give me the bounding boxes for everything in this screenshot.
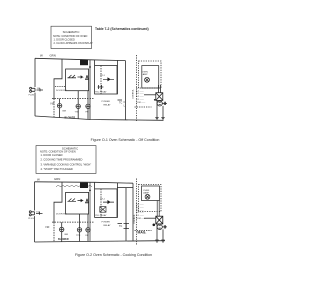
connector block dark <box>80 60 88 65</box>
HV wire down right S2 <box>162 229 164 240</box>
fuse F1 <box>37 89 44 92</box>
svg-text:FM: FM <box>86 235 89 237</box>
svg-text:CONTROL: CONTROL <box>133 88 135 99</box>
touch control panel dashed box S2 <box>139 185 162 212</box>
HV wire down right S1 <box>162 106 164 118</box>
interlock switch contacts S1 <box>68 75 77 78</box>
HV capacitor C1 S2 <box>162 225 167 228</box>
interlock switch arrow S1 <box>78 76 83 78</box>
touch control panel dashed box S1 <box>139 61 162 88</box>
svg-text:PLUG: PLUG <box>29 94 35 96</box>
svg-text:RY-1 RELAY: RY-1 RELAY <box>95 91 107 94</box>
wire step down from top bus S1 <box>54 59 62 99</box>
wire left side S2 <box>34 182 36 242</box>
note box 2 border <box>36 146 96 174</box>
fan motor FM S1 <box>86 91 90 120</box>
wire bottom bus S1 <box>35 116 164 120</box>
svg-text:LAMP: LAMP <box>142 73 148 76</box>
HV wire down left S2 <box>156 224 158 240</box>
svg-text:NOTE: CONDITION OF OVEN: NOTE: CONDITION OF OVEN <box>53 35 88 38</box>
control unit inner box S1 <box>142 66 159 88</box>
wire x54 to bottom S2 <box>53 222 55 241</box>
svg-text:TTM: TTM <box>76 235 81 237</box>
junction dot S2 <box>153 224 156 227</box>
relay box divider S2 <box>100 189 102 218</box>
capacitor marks S2 <box>124 223 130 228</box>
svg-text:A-1 ——: A-1 —— <box>136 203 144 206</box>
svg-text:NF: NF <box>46 225 50 229</box>
svg-text:DOOR SW.: DOOR SW. <box>56 214 68 216</box>
blower motor BM S2 <box>60 222 64 242</box>
svg-text:NOTE: CONDITION OF OVEN: NOTE: CONDITION OF OVEN <box>40 150 76 154</box>
svg-text:GRN: GRN <box>50 54 56 58</box>
svg-text:MAG.: MAG. <box>138 231 147 235</box>
svg-text:C-1 ——: C-1 —— <box>136 99 144 101</box>
control unit inner box S2 <box>142 186 160 201</box>
svg-text:1. DOOR CLOSED: 1. DOOR CLOSED <box>54 39 75 42</box>
wire top bus S1 <box>35 58 126 60</box>
svg-text:A-1 ——: A-1 —— <box>136 86 144 89</box>
triac box S2 <box>100 207 106 213</box>
interlock switch box S2 <box>66 192 89 214</box>
svg-text:OVEN: OVEN <box>143 190 150 192</box>
svg-text:W: W <box>40 54 43 58</box>
HV double wire S1 <box>159 85 161 93</box>
wire vertical x133 S2 <box>132 183 134 241</box>
blower motor BM S1 <box>57 99 61 118</box>
ground chassis right S1 <box>161 118 164 120</box>
svg-text:Figure O-1 Oven Schematic - Of: Figure O-1 Oven Schematic - Off Conditio… <box>91 138 160 142</box>
relay RY-1 contact arrow S2 <box>103 201 114 204</box>
wire bus to relay box S1 <box>94 60 96 66</box>
svg-text:Table 7-2 (Schematics continue: Table 7-2 (Schematics continued) <box>95 27 149 31</box>
noise filter coil S2 <box>56 186 92 188</box>
wire vertical x90 S1 <box>89 60 91 120</box>
HV transformer T1 S1 <box>156 93 163 101</box>
svg-text:B-1 ——: B-1 —— <box>136 93 144 95</box>
wire to transformer S1 <box>144 94 156 96</box>
ground chassis left S2 <box>155 240 158 242</box>
wire left side S1 <box>34 58 36 116</box>
svg-text:W: W <box>37 177 40 181</box>
wire dashed branch bus S1 <box>52 98 94 100</box>
interlock switch box S1 <box>66 69 89 91</box>
interlock contact 2 S1 <box>85 75 89 79</box>
thermal cutout stub S1 <box>118 99 123 101</box>
svg-text:COM ——: COM —— <box>136 218 145 220</box>
svg-text:B-2 ——: B-2 —— <box>136 212 144 214</box>
svg-text:2. CLOCK APPEARS ON DISPLAY: 2. CLOCK APPEARS ON DISPLAY <box>54 42 94 45</box>
svg-text:TTM: TTM <box>75 111 80 113</box>
svg-text:SCHEMATIC: SCHEMATIC <box>63 30 80 34</box>
HV double wire S2 <box>157 201 159 217</box>
svg-text:TC: TC <box>119 101 122 104</box>
oven lamp L1 S1 <box>145 77 150 82</box>
interlock switch contacts S2 <box>68 199 77 202</box>
svg-text:COM ——: COM —— <box>136 102 145 104</box>
oven lamp L1 S2 <box>145 194 150 199</box>
svg-text:RELAY: RELAY <box>104 224 112 227</box>
junction dot x90 S1 <box>89 66 91 68</box>
svg-text:BM: BM <box>63 110 66 112</box>
turntable motor TTM S2 <box>77 214 81 241</box>
turntable motor TTM S1 <box>76 91 80 119</box>
wire vertical x125.4 S1 <box>124 61 126 120</box>
wire dashes left of interlock S1 <box>55 85 66 87</box>
svg-text:BLOWER: BLOWER <box>65 117 76 120</box>
wire bottom bus S2 <box>35 241 166 242</box>
svg-text:RY-1 RELAY: RY-1 RELAY <box>95 214 107 217</box>
wire vertical x90 S2 <box>89 182 91 241</box>
svg-text:OVEN: OVEN <box>142 71 149 73</box>
wire vertical x126 S2 <box>125 188 127 241</box>
note box 1 border <box>51 26 92 48</box>
ground chassis left S1 <box>155 118 158 120</box>
svg-text:RY-1: RY-1 <box>100 199 105 201</box>
relay RY-1 contact arrow S1 <box>103 78 114 81</box>
junction dot x90 S2 <box>89 190 91 192</box>
wire to transformer S2 <box>144 217 156 219</box>
svg-text:RELAY: RELAY <box>104 104 112 107</box>
svg-text:LAMP: LAMP <box>143 192 149 195</box>
svg-text:BM: BM <box>65 234 68 236</box>
dashed link to magnetron S2 <box>135 229 152 231</box>
HV wire down left S1 <box>156 100 158 117</box>
svg-text:B-2 ——: B-2 —— <box>136 96 144 98</box>
fuse F1 S2 <box>36 212 43 215</box>
connector block dark S2 <box>80 183 88 188</box>
svg-text:A-2 ——: A-2 —— <box>136 89 144 92</box>
svg-text:A-2 ——: A-2 —— <box>136 205 144 208</box>
svg-text:3. VARIABLE COOKING CONTROL "H: 3. VARIABLE COOKING CONTROL "HIGH" <box>41 162 92 166</box>
svg-text:4. "START" PAD TOUCHED: 4. "START" PAD TOUCHED <box>41 167 73 171</box>
svg-text:FM: FM <box>86 111 89 113</box>
svg-text:TC: TC <box>119 225 122 228</box>
svg-text:PLUG: PLUG <box>28 218 34 220</box>
svg-text:POWER: POWER <box>102 101 111 103</box>
svg-text:2. COOKING TIME PROGRAMMED: 2. COOKING TIME PROGRAMMED <box>41 158 83 162</box>
interlock contact 2 S2 <box>85 199 89 203</box>
ground chassis right S2 <box>161 240 164 242</box>
HV capacitor C1 S1 <box>162 102 167 105</box>
HV transformer T1 S2 <box>156 216 163 224</box>
svg-text:POWER: POWER <box>102 222 111 224</box>
thermal cutout stub S2 <box>118 223 123 225</box>
svg-text:RY-1: RY-1 <box>100 75 105 77</box>
wire step down S2 <box>54 182 62 222</box>
power cord plug P1 <box>30 87 35 92</box>
magnetron MG1 S1 <box>157 101 162 106</box>
wire dashed branch bus S2 <box>52 221 94 223</box>
junction dot S1 <box>154 99 156 101</box>
dashed link to magnetron S1 <box>135 106 152 108</box>
wire vertical x117.5 S2 <box>117 183 119 218</box>
svg-text:BLOWER: BLOWER <box>58 238 69 241</box>
dashed panel boundary S2 <box>136 179 138 246</box>
interlock arrow S2 <box>78 200 83 202</box>
svg-text:GRN: GRN <box>54 177 60 181</box>
power cord plug P2 <box>29 211 34 216</box>
wire top bus S2 <box>35 182 134 183</box>
svg-text:DOOR SW.: DOOR SW. <box>56 90 68 92</box>
relay unit box S1 <box>95 66 117 95</box>
relay coil S1 <box>98 85 104 89</box>
relay box divider S1 <box>100 66 102 95</box>
svg-text:Figure O-2 Oven Schematic - Co: Figure O-2 Oven Schematic - Cooking Cond… <box>75 253 152 257</box>
wire x54 to bottom S1 <box>53 99 55 118</box>
dashed panel boundary S1 <box>136 55 138 122</box>
svg-text:B-1 ——: B-1 —— <box>136 209 144 211</box>
fan motor FM S2 <box>86 214 90 241</box>
wire relay box top extension S2 <box>117 187 133 189</box>
svg-text:1. DOOR CLOSED: 1. DOOR CLOSED <box>41 153 63 157</box>
wire bus to relay box S2 <box>94 182 96 189</box>
magnetron MG1 S2 <box>157 224 162 229</box>
relay unit box S2 <box>95 189 117 218</box>
wire vertical x117.5 S1 <box>117 60 119 94</box>
svg-text:C-1 ——: C-1 —— <box>136 215 144 217</box>
